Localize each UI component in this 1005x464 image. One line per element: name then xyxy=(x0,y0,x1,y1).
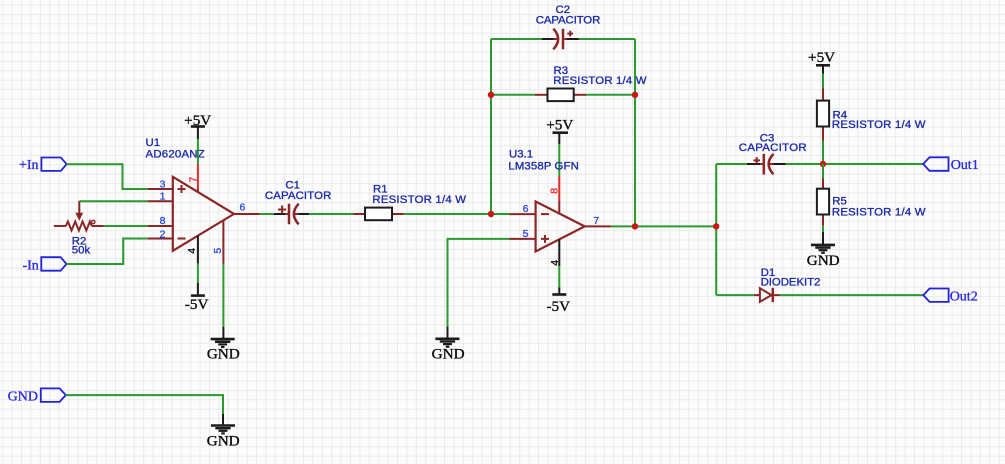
wire +In to U1 pin 3 xyxy=(67,164,148,189)
svg-text:-5V: -5V xyxy=(185,296,209,313)
wire U3 pin 7 to right section xyxy=(611,225,716,227)
svg-text:7: 7 xyxy=(187,177,199,183)
junction dot at R3 left xyxy=(488,92,494,98)
resistor R3 xyxy=(535,89,586,102)
junction dot at R3 right xyxy=(632,92,638,98)
supply -5V (U1) xyxy=(185,283,209,313)
svg-text:5: 5 xyxy=(212,248,224,254)
ground GND (port) xyxy=(211,414,235,433)
ground GND (R5) xyxy=(811,232,835,253)
junction dot at R4/R5/Out1 xyxy=(820,161,826,167)
svg-text:+5V: +5V xyxy=(184,112,211,129)
svg-text:RESISTOR 1/4 W: RESISTOR 1/4 W xyxy=(832,206,926,218)
wire Out2 row left xyxy=(716,294,754,296)
junction dot at U3 output xyxy=(632,223,638,229)
wire output branch vertical xyxy=(715,164,717,295)
svg-text:1: 1 xyxy=(160,191,166,203)
resistor R5 xyxy=(817,179,829,226)
svg-text:DIODEKIT2: DIODEKIT2 xyxy=(761,276,821,288)
port +In xyxy=(41,158,66,171)
op-amp U1 xyxy=(148,164,260,264)
supply +5V (U1) xyxy=(184,112,211,139)
svg-text:8: 8 xyxy=(549,188,561,194)
supply -5V (U3) xyxy=(546,287,570,314)
svg-text:4: 4 xyxy=(186,248,198,254)
resistor R4 xyxy=(817,88,829,140)
wire U1 pin 4 to -5V xyxy=(197,263,199,283)
wire GND port to ground xyxy=(66,395,223,414)
supply +5V (R4) xyxy=(808,49,835,74)
wire -In to U1 pin 2 xyxy=(67,239,148,265)
svg-text:CAPACITOR: CAPACITOR xyxy=(739,142,807,154)
svg-text:LM358P GFN: LM358P GFN xyxy=(508,160,578,172)
wire feedback right vertical xyxy=(634,39,636,226)
wire U1 pin 5 to GND xyxy=(222,264,224,327)
junction dot at U3 pin 6 xyxy=(488,211,494,217)
wire R1 to U3 pin 6 xyxy=(404,213,510,215)
wire U1 pin 6 to C1 xyxy=(260,213,274,215)
port GND xyxy=(41,388,66,402)
svg-text:50k: 50k xyxy=(72,244,91,256)
svg-text:Out2: Out2 xyxy=(950,289,978,304)
capacitor C1 xyxy=(274,204,309,225)
junction dot at output branch xyxy=(713,223,719,229)
svg-text:7: 7 xyxy=(593,215,599,227)
svg-text:5: 5 xyxy=(523,228,529,240)
svg-text:CAPACITOR: CAPACITOR xyxy=(536,15,601,27)
svg-text:3: 3 xyxy=(160,178,166,190)
wire Out1 row left xyxy=(716,163,747,165)
svg-text:U1: U1 xyxy=(146,137,161,149)
svg-text:RESISTOR 1/4 W: RESISTOR 1/4 W xyxy=(832,119,926,131)
diode D1 xyxy=(754,288,780,302)
port Out1 xyxy=(923,157,948,171)
wire R4 to Out1 row xyxy=(822,141,824,165)
wire U1 pin 8 to R2 xyxy=(104,225,148,227)
wire +5V to R4 xyxy=(822,74,824,89)
wire U3 pin 4 to -5V xyxy=(558,266,560,287)
svg-text:-5V: -5V xyxy=(546,298,570,315)
port Out2 xyxy=(923,289,948,302)
resistor R1 xyxy=(354,208,404,221)
svg-text:4: 4 xyxy=(549,260,561,266)
wire U1 pin 1 to R2 wiper xyxy=(79,200,148,202)
wire C3 to Out1 xyxy=(786,163,924,165)
wire R3 row right xyxy=(586,94,635,96)
wire +5V to U1 pin 7 xyxy=(197,139,199,164)
wire R3 row left xyxy=(491,94,535,96)
wire feedback left vertical xyxy=(490,39,492,214)
wire Out1 row to R5 xyxy=(822,164,824,179)
supply +5V (U3) xyxy=(546,117,573,145)
ground GND (U3) xyxy=(435,327,459,347)
svg-text:Out1: Out1 xyxy=(951,158,979,173)
ground GND (U1) xyxy=(211,327,235,347)
svg-text:GND: GND xyxy=(432,346,465,363)
svg-text:GND: GND xyxy=(807,252,840,269)
capacitor C2 xyxy=(542,29,579,50)
svg-text:GND: GND xyxy=(8,389,38,404)
capacitor C3 xyxy=(747,154,786,175)
svg-text:6: 6 xyxy=(523,203,529,215)
wire +5V to U3 pin 8 xyxy=(558,144,560,176)
svg-text:CAPACITOR: CAPACITOR xyxy=(265,190,331,202)
wire D1 to Out2 xyxy=(780,294,924,296)
svg-text:+5V: +5V xyxy=(808,49,835,66)
wire R5 to GND xyxy=(822,226,824,232)
wire C2 row xyxy=(491,38,542,40)
svg-text:U3.1: U3.1 xyxy=(509,149,533,161)
svg-text:RESISTOR 1/4 W: RESISTOR 1/4 W xyxy=(372,194,466,206)
svg-text:2: 2 xyxy=(160,229,166,241)
svg-text:+In: +In xyxy=(19,158,39,173)
op-amp U3.1 xyxy=(510,176,612,266)
svg-text:-In: -In xyxy=(22,258,38,273)
svg-text:GND: GND xyxy=(207,433,240,450)
svg-text:6: 6 xyxy=(240,202,246,214)
port -In xyxy=(41,257,66,271)
svg-text:8: 8 xyxy=(160,215,166,227)
wire C1 to R1 xyxy=(309,213,353,215)
resistor R2 (trimmer 50k) xyxy=(54,201,104,230)
wire U3 pin 5 to GND xyxy=(448,239,510,327)
svg-text:RESISTOR 1/4 W: RESISTOR 1/4 W xyxy=(553,75,646,87)
svg-text:GND: GND xyxy=(207,346,240,363)
svg-text:+5V: +5V xyxy=(546,117,573,134)
svg-text:AD620ANZ: AD620ANZ xyxy=(146,148,205,160)
